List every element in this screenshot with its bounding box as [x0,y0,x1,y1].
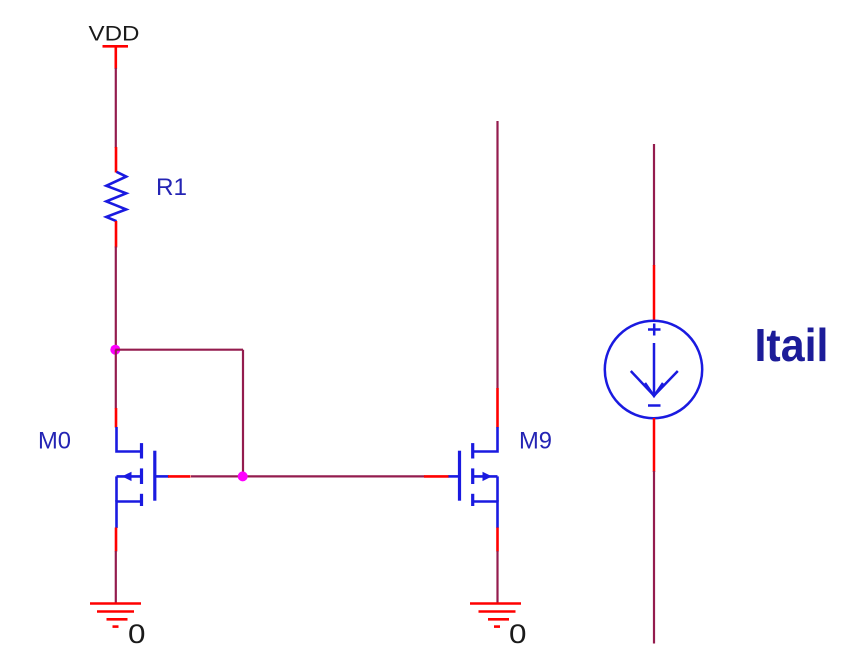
svg-text:Itail: Itail [755,319,829,371]
M9 channel bars [471,443,474,458]
Itail plus sign [648,328,661,331]
wire Itail top [653,144,655,266]
wire gate bus M0 to M9 [191,475,425,477]
transistor M0 [116,408,191,552]
Itail bottom pin [653,418,656,472]
svg-text:VDD: VDD [89,22,140,46]
Itail arrow chevron [631,371,678,396]
M9 gate pin [424,475,449,478]
VDD power symbol [103,46,129,69]
transistor M9 [424,388,498,552]
wire down to gate bus [242,350,244,477]
Itail arrow head small [645,383,663,396]
wire node A right [115,349,243,351]
svg-text:M9: M9 [519,428,552,455]
M9 drain lead [473,427,498,452]
svg-text:0: 0 [128,619,146,649]
svg-text:M0: M0 [38,428,71,455]
M0 gate lead [155,475,169,478]
M0 source pin [115,528,118,552]
ground symbol left [90,604,141,627]
M0 gate pin [168,475,191,478]
wire M0 source to ground [115,551,117,604]
ground symbol right [470,604,521,627]
wire M9 source to ground [496,551,498,604]
M9 bulk-source vertical [496,476,499,501]
node A junction dot [110,345,120,355]
M9 drain pin [496,388,499,428]
wire R1 to node A [115,247,117,350]
resistor R1 [106,147,126,248]
M0 drain lead [117,427,142,452]
current source Itail [605,265,702,472]
Itail top pin [653,265,656,321]
M9 gate bar [458,451,461,501]
node B junction dot [238,471,248,481]
wire Itail bottom [653,471,655,644]
Itail minus sign [648,404,661,407]
Itail circle body [605,321,702,418]
wire VDD to R1 [115,68,117,148]
svg-text:R1: R1 [156,174,187,201]
wire node A to M0 drain [115,350,117,409]
M9 gate lead [448,475,460,478]
M0 source lead [117,502,142,529]
M0 bulk-source vertical [115,476,118,501]
svg-text:0: 0 [509,619,527,649]
M9 source pin [496,528,499,552]
M0 drain pin [115,408,118,428]
wire M9 drain from top [496,121,498,389]
M0 channel bars [140,443,143,458]
M0 bulk line with arrow [117,475,142,478]
M9 bulk line with arrow [473,475,498,478]
Itail arrow shaft [653,343,656,396]
M9 source lead [473,502,498,529]
M0 gate bar [153,451,156,501]
